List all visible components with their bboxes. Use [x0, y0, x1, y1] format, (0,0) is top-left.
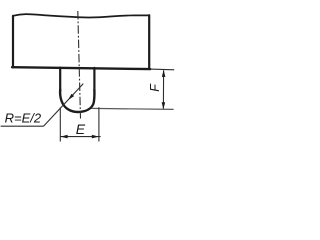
svg-text:R=E/2: R=E/2	[5, 110, 42, 125]
svg-text:E: E	[76, 121, 86, 137]
